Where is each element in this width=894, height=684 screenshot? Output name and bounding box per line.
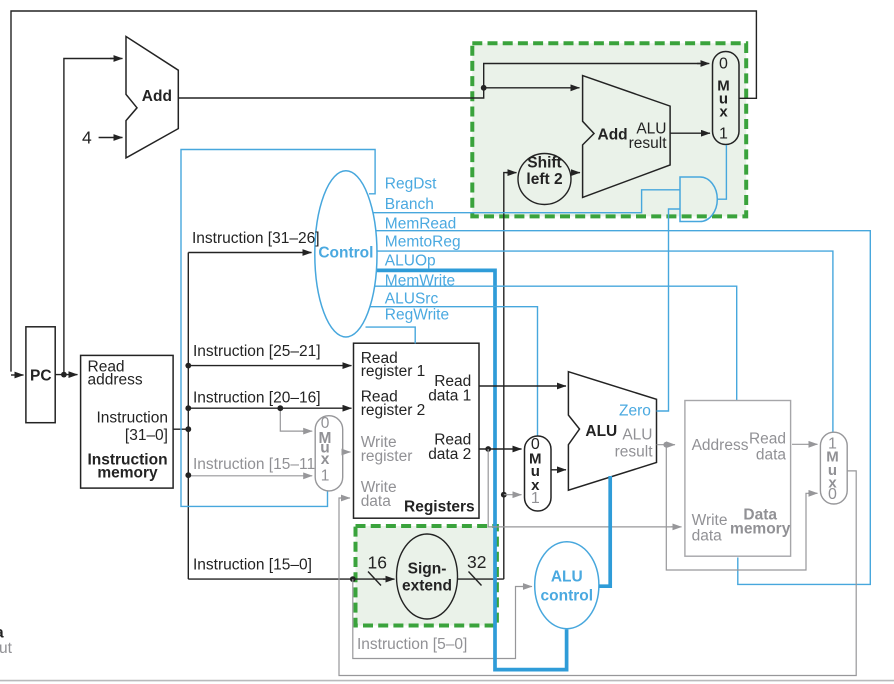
svg-text:control: control — [541, 588, 594, 605]
svg-text:Instruction [20–16]: Instruction [20–16] — [193, 390, 321, 407]
node PC output junction — [61, 372, 67, 378]
node sign-extend output branch — [501, 492, 507, 498]
adder Add (PC+4) — [126, 37, 178, 158]
svg-text:result: result — [629, 135, 668, 152]
svg-text:Shift: Shift — [527, 155, 561, 172]
wire Instruction[25-21] to Read register 1 — [188, 365, 351, 367]
svg-text:0: 0 — [828, 486, 837, 503]
wire PC to Add upper input — [64, 59, 113, 375]
wire RegWrite control signal — [366, 327, 416, 343]
svg-text:ALU: ALU — [551, 569, 583, 586]
svg-text:data: data — [361, 493, 392, 510]
bus width 16 slash — [368, 572, 381, 586]
wire shift-left-2 output to branch adder — [571, 172, 580, 174]
wire Instruction[31-26] to Control — [188, 252, 311, 254]
wire instruction bus vertical — [187, 253, 189, 580]
wire write-register mux output — [343, 451, 351, 453]
svg-text:data 1: data 1 — [428, 388, 471, 405]
bus width 32 slash — [469, 572, 482, 586]
svg-text:Instruction [15–11]: Instruction [15–11] — [193, 456, 319, 473]
svg-text:ALUOp: ALUOp — [385, 252, 436, 269]
svg-text:Branch: Branch — [385, 196, 434, 213]
svg-text:data: data — [692, 528, 723, 545]
wire Instruction[15-11] to write-register mux input 1 — [188, 475, 312, 477]
svg-text:MemRead: MemRead — [385, 215, 457, 232]
svg-text:16: 16 — [368, 553, 387, 573]
wire ALUSrc control signal — [370, 307, 538, 437]
svg-text:[31–0]: [31–0] — [125, 427, 168, 444]
data memory — [685, 401, 791, 557]
svg-text:Read: Read — [749, 431, 786, 448]
svg-text:ALUSrc: ALUSrc — [385, 290, 439, 307]
wire Instruction[15-0] to sign-extend — [188, 578, 385, 580]
wire ALU control output to ALU (thick) — [599, 476, 610, 586]
svg-text:x: x — [719, 103, 728, 120]
svg-text:Instruction [25–21]: Instruction [25–21] — [193, 343, 321, 360]
svg-text:0: 0 — [719, 55, 728, 72]
sign extender — [397, 534, 458, 619]
svg-text:MemWrite: MemWrite — [385, 273, 455, 290]
svg-text:1: 1 — [321, 467, 330, 484]
wire MemWrite control signal — [373, 286, 737, 400]
svg-text:Sign-: Sign- — [408, 561, 447, 578]
svg-text:Add: Add — [598, 127, 628, 144]
AND gate branch — [680, 177, 717, 222]
svg-text:register 1: register 1 — [361, 363, 426, 380]
svg-text:data 2: data 2 — [428, 446, 471, 463]
svg-text:Instruction: Instruction — [96, 410, 168, 427]
mux M3 ALUSrc — [525, 436, 552, 511]
svg-text:RegWrite: RegWrite — [385, 307, 449, 324]
svg-text:left 2: left 2 — [526, 171, 562, 188]
mux M4 MemtoReg — [820, 432, 847, 504]
wire constant 4 into Add — [99, 137, 123, 139]
wire ALUSrc mux output to ALU — [551, 469, 566, 471]
wire shift-left-2 input from sign-extend bus — [504, 173, 508, 579]
frame bottom rule — [0, 680, 894, 682]
wire Read data to final mux input 1 — [792, 443, 818, 445]
wire sign-extend output — [458, 578, 504, 580]
wire PC output to instruction memory — [55, 374, 77, 376]
svg-text:data: data — [756, 447, 787, 464]
registers file — [354, 343, 480, 518]
svg-text:memory: memory — [97, 465, 158, 482]
adder Add ALU result (branch target) — [583, 76, 671, 198]
ALU main — [568, 372, 656, 491]
svg-text:Add: Add — [142, 88, 172, 105]
svg-text:Write: Write — [692, 512, 728, 529]
ALU control unit — [535, 542, 599, 629]
wire Instruction[5-0] funct to ALU control — [353, 579, 525, 658]
svg-text:Instruction [15–0]: Instruction [15–0] — [193, 557, 312, 574]
wire Read data 2 to ALUSrc mux input 0 — [479, 448, 522, 450]
wire Instruction[20-16] branch to write-register mux input 0 — [280, 408, 305, 431]
wire AND output to branch mux select — [717, 145, 726, 199]
svg-text:MemtoReg: MemtoReg — [385, 233, 461, 250]
svg-text:Instruction [31–26]: Instruction [31–26] — [192, 230, 320, 247]
wire ALU result to Data memory Address — [657, 444, 676, 446]
wire MemtoReg control signal — [376, 251, 833, 432]
control unit — [315, 171, 377, 337]
svg-text:register: register — [361, 448, 413, 465]
highlight box sign-extend region — [356, 526, 497, 626]
svg-text:result: result — [615, 444, 654, 461]
svg-text:1: 1 — [531, 490, 540, 507]
svg-text:register 2: register 2 — [361, 402, 426, 419]
wire PC+4 from Add to branch mux input 0 — [178, 64, 700, 99]
wire Read data 2 to Data memory Write data — [488, 449, 673, 527]
wire arrow into PC — [11, 374, 24, 376]
wire PC+4 to branch adder upper input — [484, 87, 580, 89]
mux M1 branch select — [713, 52, 740, 145]
svg-text:PC: PC — [30, 368, 52, 385]
wire Branch control signal — [371, 190, 680, 213]
mux M2 write-register select — [315, 415, 343, 491]
wire Instruction[20-16] to Read register 2 — [188, 407, 351, 409]
wire Read data 1 to ALU — [479, 385, 566, 387]
svg-text:extend: extend — [402, 578, 452, 595]
svg-text:Address: Address — [692, 437, 749, 454]
wire MemRead control signal — [375, 231, 871, 585]
svg-text:32: 32 — [467, 552, 486, 572]
wire RegDst control signal — [181, 150, 375, 507]
shifter Shift left 2 — [518, 154, 571, 205]
PC register — [26, 327, 55, 423]
instruction memory — [81, 355, 174, 488]
wire ALU result to final mux input 0 — [666, 445, 810, 570]
wire sign-extend to ALUSrc mux input 1 — [504, 494, 522, 496]
svg-text:Registers: Registers — [404, 499, 475, 516]
wire PC-mux feedback top frame — [11, 11, 756, 372]
svg-text:address: address — [88, 372, 143, 389]
svg-text:memory: memory — [730, 521, 791, 538]
svg-text:4: 4 — [82, 128, 92, 148]
wire Zero to AND gate — [657, 209, 681, 411]
wire branch adder output to mux input 1 — [670, 132, 710, 134]
svg-text:Instruction [5–0]: Instruction [5–0] — [357, 636, 467, 653]
svg-text:1: 1 — [719, 126, 728, 143]
svg-text:Zero: Zero — [619, 403, 651, 420]
wire instruction memory output — [173, 428, 188, 430]
svg-text:ut: ut — [0, 640, 13, 657]
wire write-back to Registers Write data — [339, 471, 856, 676]
node Read data 2 junction — [485, 446, 491, 452]
svg-text:x: x — [321, 451, 330, 468]
svg-text:ALU: ALU — [585, 423, 617, 440]
wire ALUOp control signal (thick) — [375, 270, 567, 669]
highlight box branch-target region — [472, 43, 746, 216]
node instruction bus junction — [185, 426, 191, 432]
node ALU result junction — [663, 442, 669, 448]
svg-text:Control: Control — [318, 245, 373, 262]
node PC+4 branch junction — [481, 85, 487, 91]
svg-text:ALU: ALU — [622, 427, 652, 444]
svg-text:RegDst: RegDst — [385, 176, 437, 193]
